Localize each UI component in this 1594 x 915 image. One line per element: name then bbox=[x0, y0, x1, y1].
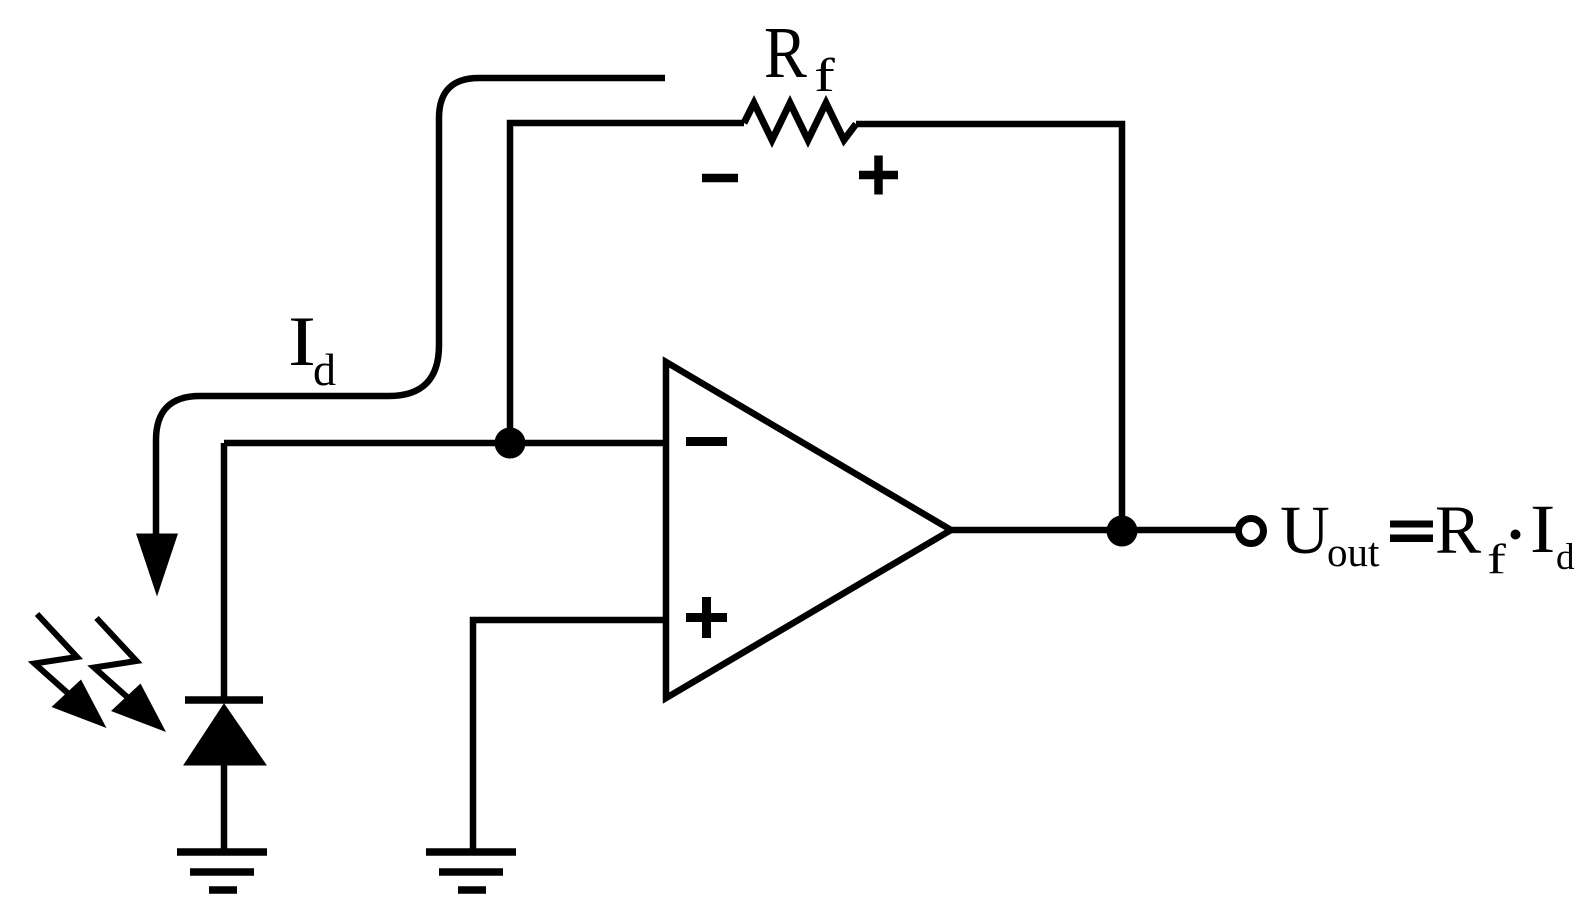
photodiode D1 cathode bar bbox=[185, 696, 263, 704]
svg-text:R: R bbox=[764, 12, 807, 93]
svg-text:d: d bbox=[313, 344, 336, 395]
wire feedback left: vertical from node up then right to resistor bbox=[510, 123, 744, 443]
wire inverting-input horizontal bbox=[224, 440, 666, 447]
svg-text:I: I bbox=[288, 302, 316, 381]
light arrow 2 bbox=[94, 618, 166, 732]
ground under non-inverting input bbox=[426, 852, 516, 890]
op-amp minus input sign bbox=[686, 437, 727, 446]
current path Id curved line bbox=[156, 78, 665, 540]
label plus under resistor bbox=[859, 156, 898, 195]
op-amp plus input sign bbox=[686, 597, 727, 638]
svg-text:I: I bbox=[1530, 490, 1555, 567]
ground under photodiode bbox=[177, 852, 267, 890]
svg-text:U: U bbox=[1280, 492, 1330, 568]
label minus under resistor bbox=[702, 174, 738, 183]
wire non-inverting input to ground bbox=[473, 620, 666, 849]
light arrow 1 bbox=[35, 614, 107, 728]
node junction dot output bbox=[1107, 516, 1138, 547]
svg-text:d: d bbox=[1556, 537, 1575, 578]
svg-text:f: f bbox=[1487, 536, 1506, 582]
svg-text:R: R bbox=[1435, 492, 1481, 568]
wire feedback right: horizontal then down to output node bbox=[856, 124, 1122, 531]
current arrow Id arrowhead bbox=[136, 534, 178, 597]
wire photodiode to ground bbox=[221, 765, 228, 852]
resistor Rf zigzag bbox=[744, 103, 856, 140]
svg-text:out: out bbox=[1327, 529, 1380, 575]
output terminal open circle bbox=[1239, 519, 1264, 544]
wire op-amp output bbox=[951, 527, 1238, 534]
photodiode D1 triangle bbox=[184, 704, 266, 765]
op-amp U1 triangle bbox=[666, 362, 951, 698]
svg-text:f: f bbox=[814, 49, 835, 102]
wire photodiode anode to inverting input bbox=[221, 443, 228, 700]
node junction dot inverting input bbox=[495, 428, 526, 459]
